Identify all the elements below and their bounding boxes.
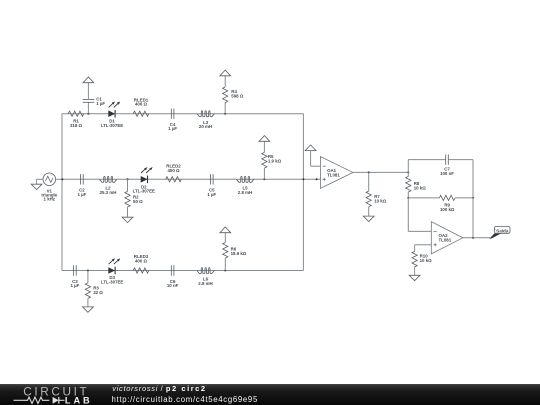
svg-text:400 Ω: 400 Ω <box>135 259 148 264</box>
svg-text:1 µF: 1 µF <box>168 126 177 131</box>
svg-text:1 kHz: 1 kHz <box>44 196 56 201</box>
wire R9 left lead <box>408 197 439 199</box>
svg-text:Saida: Saida <box>496 228 509 233</box>
svg-text:1 µF: 1 µF <box>96 101 105 106</box>
wire top branch <box>62 113 303 115</box>
svg-text:318 Ω: 318 Ω <box>70 123 83 128</box>
node R6 junction <box>224 270 226 272</box>
svg-text:2.8 mH: 2.8 mH <box>238 190 252 195</box>
resistor RLED3 400 Ω <box>133 254 149 273</box>
wire feedback right down <box>472 198 474 238</box>
wire R9 right lead <box>455 197 473 199</box>
node V1 bus junction <box>61 178 63 180</box>
svg-text:LTL-307EE: LTL-307EE <box>101 123 123 128</box>
resistor R9 100 kΩ <box>439 195 455 212</box>
node R5 junction <box>263 178 265 180</box>
resistor R3 32 Ω <box>85 271 103 307</box>
wire feedback top right <box>448 160 473 198</box>
wire OA2 output <box>463 237 491 239</box>
capacitor C7 100 nF <box>440 154 454 176</box>
CircuitLab logo <box>14 385 91 405</box>
svg-text:100 kΩ: 100 kΩ <box>440 207 455 212</box>
antenna above R6 <box>220 227 231 233</box>
antenna above OA1 inverting input <box>305 145 316 151</box>
svg-text:LAB: LAB <box>65 396 90 405</box>
wire OA2 inverting input <box>408 198 431 232</box>
svg-text:victorsrossi / p2 circ2: victorsrossi / p2 circ2 <box>112 384 206 393</box>
ground below R10 <box>409 275 420 280</box>
svg-text:10 kΩ: 10 kΩ <box>420 258 433 263</box>
svg-text:10 kΩ: 10 kΩ <box>374 198 387 203</box>
svg-text:TL081: TL081 <box>327 173 340 178</box>
ground below R3 <box>83 307 94 312</box>
footer bar <box>0 384 540 405</box>
LED D2 LTL-307EE <box>133 167 155 194</box>
resistor R7 10 kΩ <box>366 172 387 216</box>
svg-text:32 Ω: 32 Ω <box>93 290 103 295</box>
svg-text:100 nF: 100 nF <box>440 171 454 176</box>
svg-text:400 Ω: 400 Ω <box>167 168 180 173</box>
capacitor C5 1 µF <box>207 174 216 197</box>
node R7 junction <box>368 171 370 173</box>
svg-text:1 µF: 1 µF <box>70 283 79 288</box>
resistor R10 10 kΩ <box>412 251 432 275</box>
node R8 top junction <box>407 171 409 173</box>
node OA2 output junction <box>472 237 474 239</box>
node R4 junction <box>224 113 226 115</box>
svg-text:1.9 kΩ: 1.9 kΩ <box>268 159 282 164</box>
wire feedback top left <box>408 160 445 173</box>
antenna above R4 <box>220 70 231 76</box>
ground for V1 <box>31 184 42 189</box>
svg-text:25.3 mH: 25.3 mH <box>100 190 117 195</box>
svg-text:400 Ω: 400 Ω <box>135 102 148 107</box>
capacitor C2 1 µF <box>77 174 86 197</box>
footer text <box>112 384 258 404</box>
svg-text:20 mH: 20 mH <box>199 124 212 129</box>
svg-text:10 nF: 10 nF <box>167 283 179 288</box>
resistor R6 18.9 kΩ <box>223 233 247 271</box>
inductor L2 25.3 mH <box>99 176 116 195</box>
resistor RLED1 400 Ω <box>133 97 149 116</box>
capacitor C3 1 µF <box>70 265 79 288</box>
capacitor C6 10 nF <box>167 265 179 288</box>
resistor R1 318 Ω <box>68 111 84 128</box>
node R3 junction <box>87 270 89 272</box>
wire bottom branch <box>62 270 303 272</box>
node R2 junction <box>127 178 129 180</box>
svg-text:1 µF: 1 µF <box>207 192 216 197</box>
wire middle branch <box>62 178 321 180</box>
wire right vertical <box>302 114 304 271</box>
node bus crossing <box>302 178 304 180</box>
node R9 right junction <box>472 197 474 199</box>
wire left vertical bus <box>61 114 63 271</box>
resistor R2 50 Ω <box>125 179 143 217</box>
svg-text:18.9 kΩ: 18.9 kΩ <box>231 251 247 256</box>
resistor RLED2 400 Ω <box>166 164 182 182</box>
node R9 left junction <box>407 197 409 199</box>
resistor R4 598 Ω <box>223 76 244 114</box>
wire OA1 inverting input <box>311 151 321 167</box>
ground below R2 <box>122 217 133 222</box>
net flag Saida <box>489 226 510 239</box>
voltage source V1 triangle 1 kHz <box>37 173 62 201</box>
op-amp OA1 TL081 <box>321 157 353 189</box>
svg-text:LTL-307EE: LTL-307EE <box>101 280 123 285</box>
svg-text:LTL-307EE: LTL-307EE <box>133 189 155 194</box>
inductor L6 2.8 mH <box>197 268 215 286</box>
wire OA1 output <box>353 171 408 173</box>
node opamp input pin <box>316 178 318 180</box>
op-amp OA2 TL081 <box>431 222 463 254</box>
LED D3 LTL-307EE <box>101 258 123 284</box>
capacitor C4 1 µF <box>168 109 177 132</box>
svg-text:2.8 mH: 2.8 mH <box>198 281 212 286</box>
node C1 junction <box>87 113 89 115</box>
svg-text:50 Ω: 50 Ω <box>133 199 143 204</box>
LED D1 LTL-307EE <box>101 102 123 128</box>
svg-text:10 kΩ: 10 kΩ <box>414 185 427 190</box>
inductor L5 2.8 mH <box>236 176 254 195</box>
svg-text:598 Ω: 598 Ω <box>231 93 244 98</box>
antenna above C1 <box>83 77 94 83</box>
wire OA2 non-inverting input <box>415 245 432 252</box>
capacitor C1 1 µF <box>83 83 106 114</box>
resistor R5 1.9 kΩ <box>262 141 282 179</box>
svg-text:1 µF: 1 µF <box>77 192 86 197</box>
svg-text:http://circuitlab.com/c4t5e4cg: http://circuitlab.com/c4t5e4cg69e95 <box>112 395 258 404</box>
antenna above R5 <box>259 136 270 142</box>
svg-text:TL081: TL081 <box>439 237 452 242</box>
ground below R7 <box>363 216 374 221</box>
inductor L3 20 mH <box>197 111 215 129</box>
resistor R8 10 kΩ <box>406 172 427 198</box>
